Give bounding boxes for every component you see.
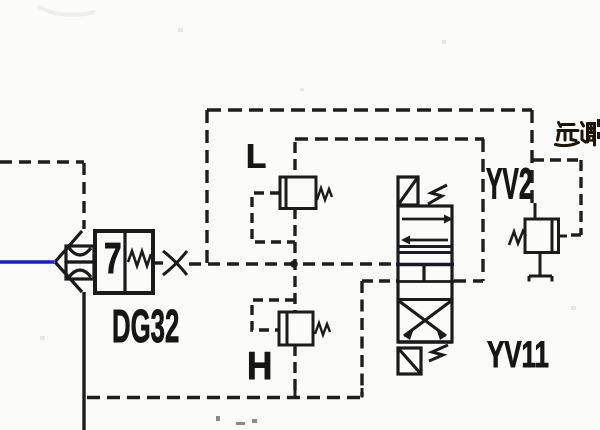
svg-text:DG32: DG32 xyxy=(112,300,179,352)
svg-text:H: H xyxy=(247,343,272,387)
svg-text:7: 7 xyxy=(104,234,122,283)
svg-text:YV2: YV2 xyxy=(486,159,533,208)
svg-text:L: L xyxy=(246,138,266,175)
svg-text:YV11: YV11 xyxy=(487,333,549,375)
